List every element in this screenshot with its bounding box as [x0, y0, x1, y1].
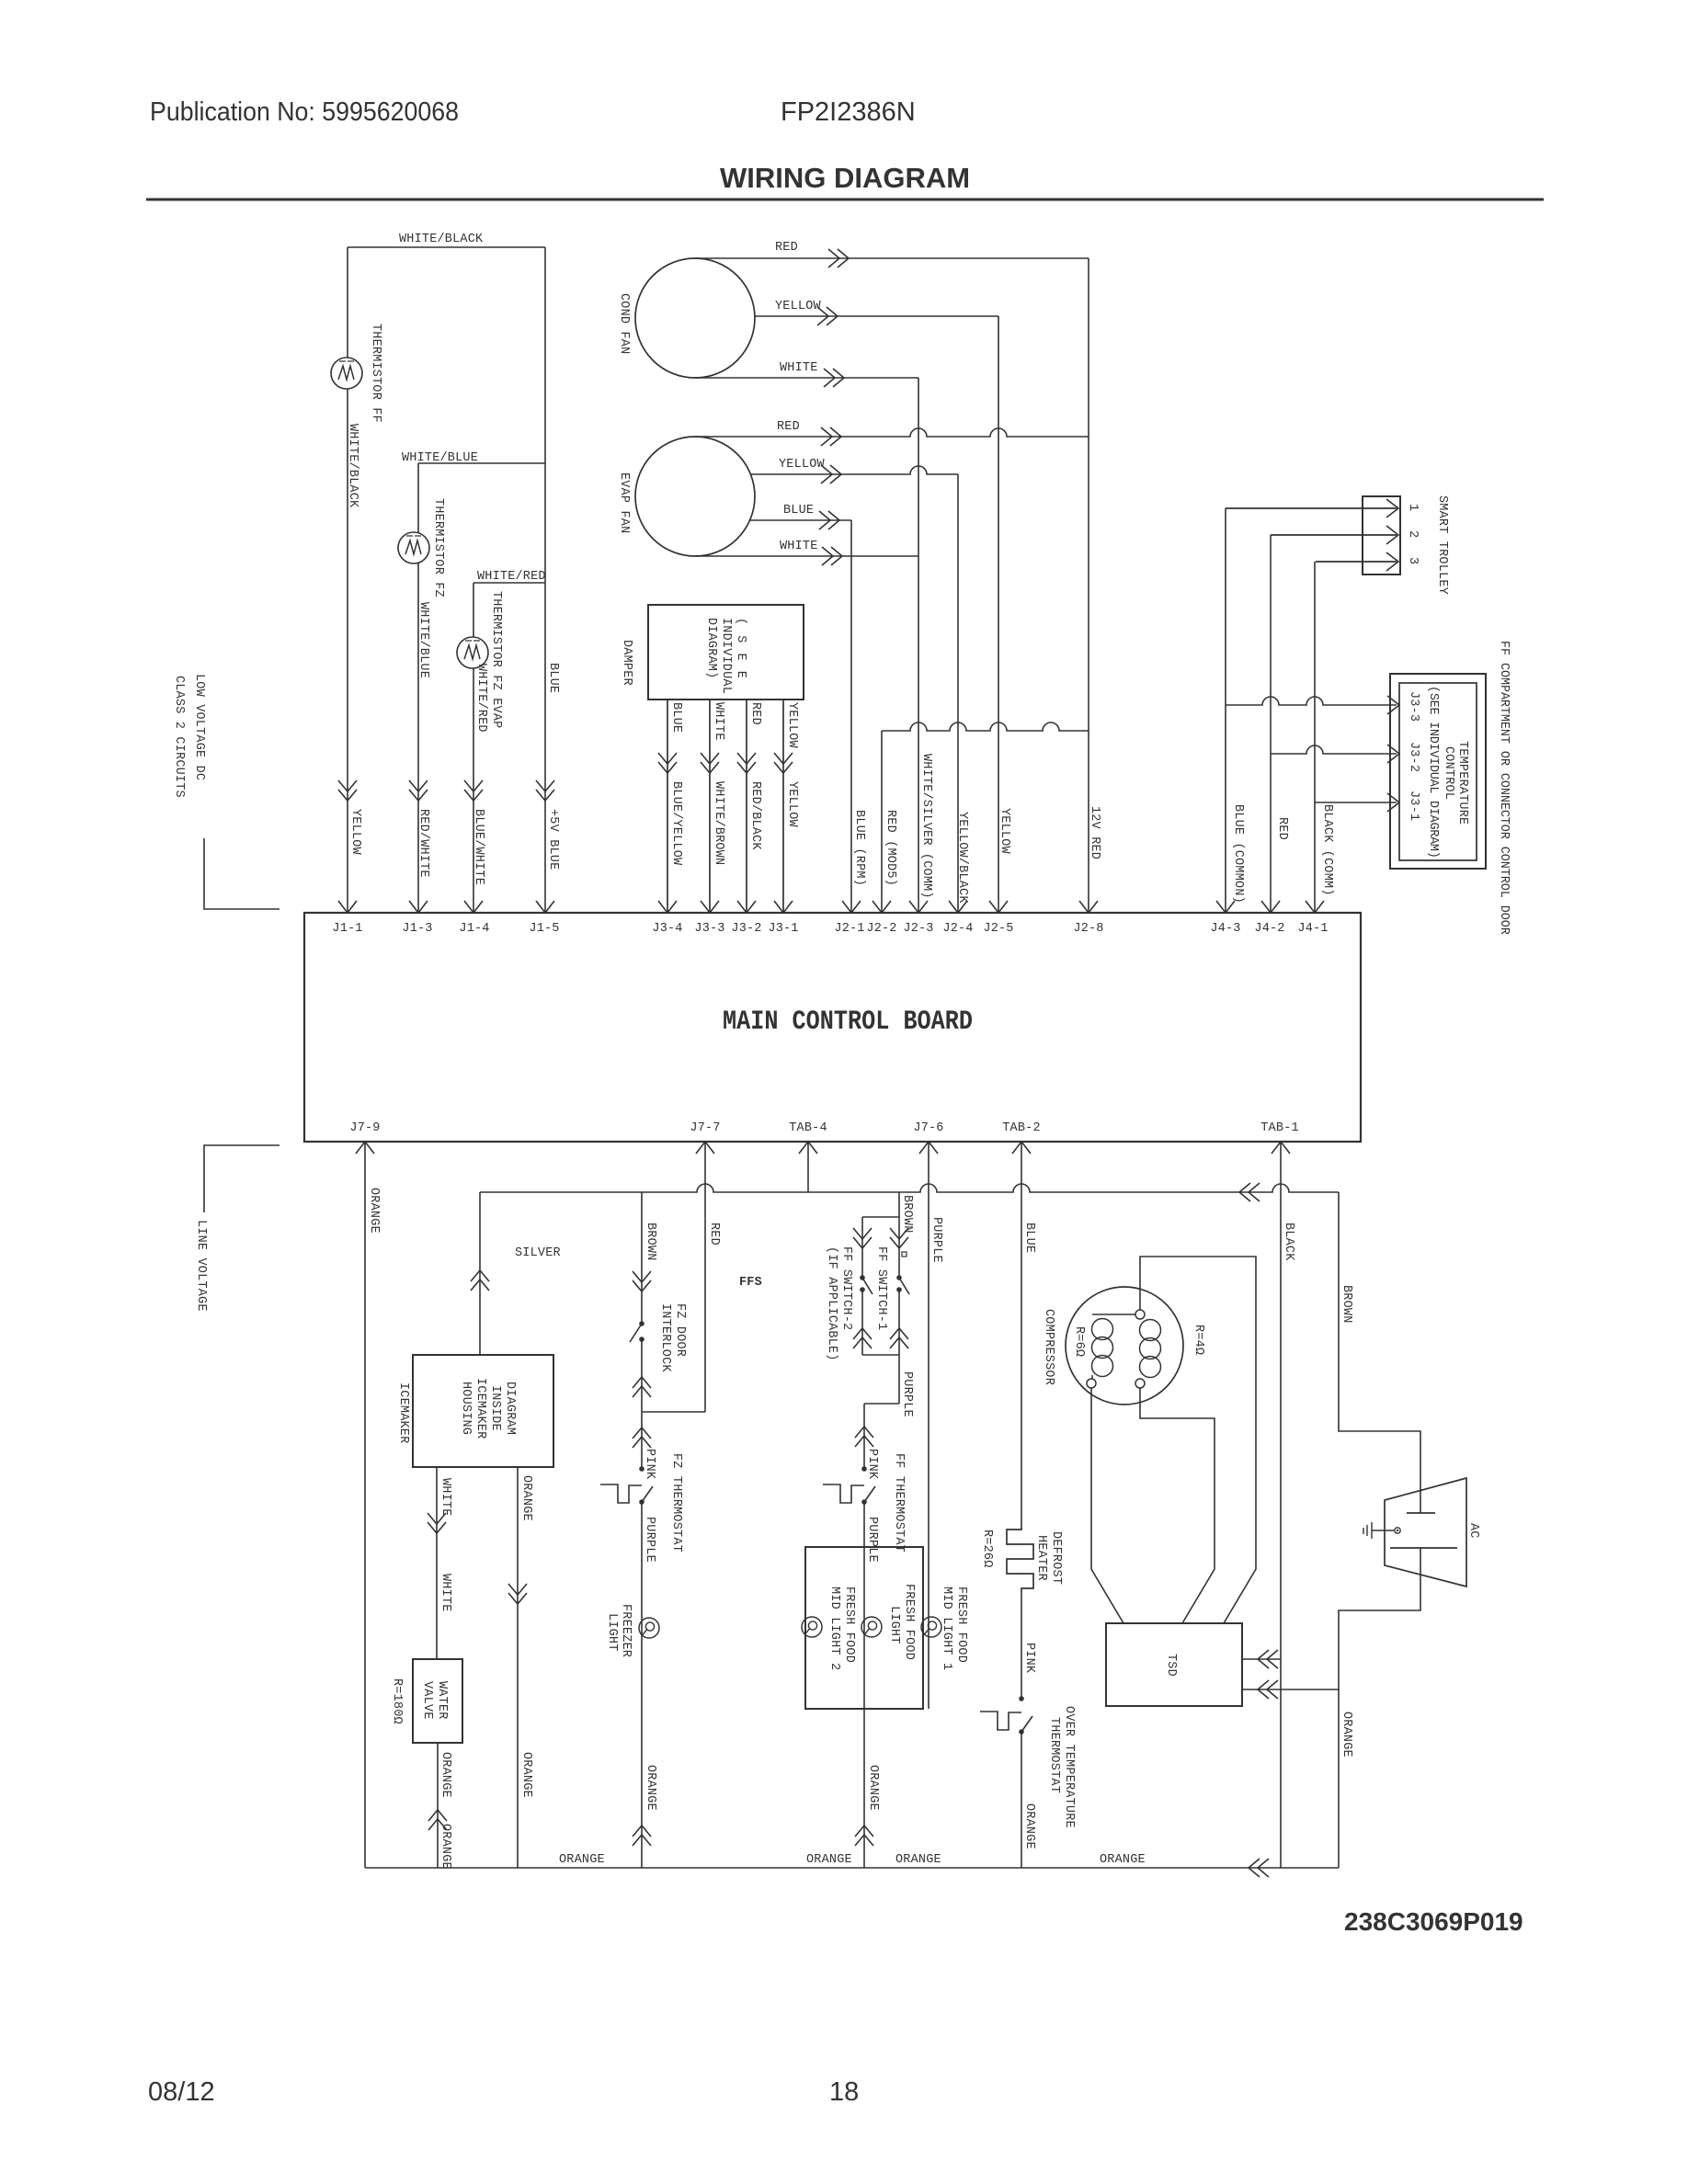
svg-text:Publication No: 5995620068: Publication No: 5995620068 — [150, 97, 459, 127]
wire RED MOD5 vertical to J2-2 — [881, 731, 883, 913]
connector chevron icemaker ORANGE — [508, 1584, 527, 1604]
arrow into J3 pin — [701, 901, 719, 913]
wire TAB-4 drop — [807, 1142, 809, 1192]
svg-text:PINK: PINK — [1022, 1643, 1036, 1674]
arrow into TAB-4 — [799, 1142, 817, 1154]
arrow into J1-5 — [536, 901, 554, 913]
connector chevron cond RED — [828, 249, 849, 267]
connector chevron damper RED — [737, 753, 756, 773]
connector chevron evap YELLOW — [821, 465, 841, 483]
svg-text:J7-7: J7-7 — [690, 1121, 720, 1135]
svg-text:RED (MOD5): RED (MOD5) — [884, 810, 897, 886]
svg-text:BLUE: BLUE — [546, 663, 560, 693]
svg-text:WHITE/BLACK: WHITE/BLACK — [346, 424, 359, 508]
ground pin — [1395, 1528, 1400, 1533]
svg-text:MID LIGHT 2: MID LIGHT 2 — [827, 1587, 841, 1670]
svg-text:TAB-4: TAB-4 — [789, 1121, 827, 1135]
arrow into J3 pin — [737, 901, 756, 913]
svg-text:PURPLE: PURPLE — [900, 1371, 914, 1417]
svg-text:WHITE: WHITE — [780, 540, 818, 553]
svg-text:YELLOW: YELLOW — [779, 458, 826, 472]
svg-text:COND FAN: COND FAN — [617, 293, 631, 354]
wire cond fan WHITE — [695, 377, 918, 379]
svg-text:1: 1 — [1406, 504, 1420, 511]
temperature control outer box — [1390, 674, 1486, 869]
leader low voltage — [204, 838, 279, 909]
arrow into J2-3 — [909, 901, 928, 913]
svg-text:FZ DOOR: FZ DOOR — [673, 1303, 687, 1357]
connector chevron J1-1 wire — [338, 780, 357, 801]
connector chevron cond YELLOW — [817, 307, 838, 325]
svg-text:THERMOSTAT: THERMOSTAT — [1047, 1717, 1061, 1793]
thermostat OVER TEMPERATURE THERMOSTAT — [1019, 1696, 1024, 1701]
connector chevron bottom rail — [1249, 1859, 1269, 1877]
svg-text:+5V BLUE: +5V BLUE — [546, 809, 560, 870]
AC power plug — [1385, 1478, 1466, 1587]
svg-text:J2-4: J2-4 — [942, 922, 973, 936]
arrow into temp control J3-2 — [1387, 745, 1399, 763]
wire BLUE COMMON vertical — [1225, 508, 1226, 913]
svg-text:LIGHT: LIGHT — [887, 1606, 901, 1644]
arrow into J2-2 — [873, 901, 891, 913]
wire J1-4 vertical — [473, 583, 474, 913]
wire compressor run to TSD — [1140, 1257, 1256, 1623]
connector chevron damper WHITE — [701, 753, 719, 773]
evap fan motor — [635, 437, 755, 556]
svg-text:INTERLOCK: INTERLOCK — [658, 1303, 672, 1372]
connector chevron FF pink — [855, 1427, 873, 1447]
arrow into J4-1 — [1306, 901, 1324, 913]
svg-text:J3-2: J3-2 — [1407, 742, 1420, 772]
wire J7-7 RED vertical — [704, 1142, 706, 1412]
svg-text:WHITE/BLUE: WHITE/BLUE — [416, 602, 430, 678]
damper box — [648, 605, 804, 700]
svg-text:MID LIGHT 1: MID LIGHT 1 — [940, 1587, 953, 1670]
svg-text:SILVER: SILVER — [515, 1246, 561, 1260]
svg-text:ORANGE: ORANGE — [439, 1752, 452, 1798]
svg-text:BLUE: BLUE — [669, 702, 683, 733]
wire WHITE/RED run — [473, 582, 545, 584]
thermistor FZ — [398, 532, 429, 563]
wire WHITE to water valve — [436, 1467, 438, 1659]
svg-text:WHITE/BLUE: WHITE/BLUE — [402, 451, 478, 465]
svg-text:J7-6: J7-6 — [913, 1121, 943, 1135]
fresh food light box — [805, 1547, 923, 1709]
svg-text:YELLOW: YELLOW — [775, 300, 822, 313]
svg-text:12V RED: 12V RED — [1088, 806, 1101, 859]
svg-text:BLACK: BLACK — [1282, 1223, 1295, 1261]
arrow into J4-3 — [1216, 901, 1235, 913]
svg-text:COMPRESSOR: COMPRESSOR — [1042, 1309, 1055, 1385]
connector chevron water valve ORANGE — [428, 1810, 447, 1830]
wire damper BLUE — [667, 700, 668, 913]
svg-text:ORANGE: ORANGE — [559, 1853, 605, 1867]
connector chevron TSD bottom — [1258, 1680, 1278, 1699]
wire 12V RED vertical — [1088, 258, 1089, 913]
title rule — [146, 199, 1544, 201]
wire interlock to thermostat — [641, 1339, 643, 1469]
svg-text:FRESH FOOD: FRESH FOOD — [842, 1587, 856, 1663]
svg-text:WHITE/BROWN: WHITE/BROWN — [712, 781, 725, 865]
arrow into J2-1 — [842, 901, 861, 913]
wire evap fan YELLOW — [750, 466, 958, 474]
arrow into J1-3 — [409, 901, 428, 913]
wire below FF SWITCH-2 — [861, 1290, 863, 1355]
svg-text:WATER: WATER — [435, 1681, 449, 1720]
wire FZ DOOR INTERLOCK brown drop — [641, 1192, 643, 1324]
wire FZ purple/orange to rail — [641, 1502, 643, 1868]
connector chevron below FF SWITCH-1 — [890, 1328, 908, 1348]
leader line voltage — [204, 1145, 279, 1212]
svg-text:TAB-2: TAB-2 — [1002, 1121, 1041, 1135]
svg-text:ICEMAKER: ICEMAKER — [473, 1378, 487, 1439]
svg-text:J4-3: J4-3 — [1210, 922, 1240, 936]
svg-text:VALVE: VALVE — [420, 1681, 434, 1720]
arrow into J1-1 — [338, 901, 357, 913]
svg-text:J3-4: J3-4 — [652, 922, 682, 936]
wire switch join — [862, 1354, 899, 1356]
wire water valve ORANGE — [437, 1743, 439, 1868]
arrow into J2-8 — [1079, 901, 1098, 913]
arrow into temp control J3-1 — [1387, 793, 1399, 812]
connector chevron J1-4 wire — [464, 780, 483, 801]
connector chevron damper BLUE — [658, 753, 677, 773]
arrow into J3 pin — [658, 901, 677, 913]
wire RED MOD5 horizontal run — [882, 722, 1089, 731]
svg-text:ORANGE: ORANGE — [367, 1188, 381, 1234]
svg-text:BLUE (COMMON): BLUE (COMMON) — [1231, 804, 1245, 904]
wire YELLOW vertical to J2-5 — [998, 316, 999, 913]
wire damper YELLOW — [782, 700, 784, 913]
svg-text:BROWN: BROWN — [644, 1223, 657, 1261]
svg-text:J7-9: J7-9 — [349, 1121, 380, 1135]
ground symbol — [1363, 1522, 1372, 1539]
connector chevron WHITE — [428, 1513, 446, 1533]
wire line-voltage feed horizontal run — [480, 1184, 1339, 1192]
svg-text:J2-2: J2-2 — [866, 922, 896, 936]
svg-text:RED: RED — [777, 420, 800, 434]
svg-text:YELLOW: YELLOW — [785, 702, 799, 749]
wire FF SWITCH-1 brown drop — [898, 1192, 900, 1278]
svg-text:FF SWITCH-2: FF SWITCH-2 — [839, 1246, 853, 1330]
arrow into J2-4 — [949, 901, 967, 913]
connector chevron FF SWITCH-2 — [853, 1228, 872, 1248]
svg-text:DIAGRAM: DIAGRAM — [503, 1382, 517, 1435]
svg-text:YELLOW/BLACK: YELLOW/BLACK — [955, 812, 969, 904]
main control board — [304, 913, 1361, 1142]
connector chevron J1-3 wire — [409, 780, 428, 801]
svg-text:CONTROL: CONTROL — [1442, 746, 1455, 800]
svg-text:J2-5: J2-5 — [983, 922, 1013, 936]
connector chevron below FF SWITCH-2 — [853, 1328, 872, 1348]
connector chevron interlock — [633, 1271, 651, 1291]
arrow trolley pin 2 — [1386, 526, 1398, 544]
wire jog to FF SWITCH-2 — [862, 1216, 899, 1218]
svg-text:CLASS 2 CIRCUITS: CLASS 2 CIRCUITS — [172, 676, 186, 798]
svg-text:MAIN CONTROL BOARD: MAIN CONTROL BOARD — [723, 1007, 973, 1038]
svg-text:ORANGE: ORANGE — [806, 1853, 852, 1867]
wire TSD to ORANGE stub — [1242, 1689, 1339, 1690]
arrow into J2-5 — [989, 901, 1008, 913]
temperature control inner box — [1399, 683, 1477, 860]
svg-text:RED: RED — [707, 1223, 721, 1246]
switch FF SWITCH-1 — [896, 1275, 902, 1280]
svg-text:FREEZER: FREEZER — [619, 1604, 633, 1657]
svg-text:ORANGE: ORANGE — [866, 1765, 880, 1811]
svg-text:BLACK (COMM): BLACK (COMM) — [1320, 804, 1334, 896]
wire +5V BLUE vertical — [544, 247, 546, 913]
svg-text:THERMISTOR FF: THERMISTOR FF — [369, 324, 382, 423]
svg-text:FZ THERMOSTAT: FZ THERMOSTAT — [669, 1453, 683, 1553]
thermistor FF — [331, 358, 362, 389]
svg-text:BROWN: BROWN — [900, 1195, 914, 1234]
svg-text:2: 2 — [1406, 530, 1420, 538]
svg-text:RED: RED — [748, 702, 762, 725]
svg-text:J3-1: J3-1 — [768, 922, 798, 936]
svg-text:FP2I2386N: FP2I2386N — [781, 97, 916, 127]
connector chevron J1-5 wire — [536, 780, 554, 801]
connector chevron feed run — [1239, 1183, 1260, 1201]
svg-text:08/12: 08/12 — [148, 2077, 215, 2107]
wire to J3-3 of temp control — [1226, 697, 1397, 705]
svg-text:BLUE: BLUE — [783, 504, 814, 518]
svg-text:FFS: FFS — [739, 1276, 762, 1290]
svg-text:YELLOW: YELLOW — [785, 781, 799, 828]
svg-text:RED/BLACK: RED/BLACK — [748, 781, 762, 850]
svg-text:BROWN: BROWN — [1340, 1285, 1353, 1324]
svg-text:J1-1: J1-1 — [332, 922, 362, 936]
svg-text:WHITE/RED: WHITE/RED — [477, 570, 546, 584]
switch FF SWITCH-2 — [860, 1275, 865, 1280]
smart trolley connector — [1363, 496, 1400, 574]
wire ORANGE from AC plug to rail — [1339, 1548, 1420, 1868]
arrow into J3 pin — [774, 901, 793, 913]
wire TAB-1 BLACK vertical — [1280, 1142, 1282, 1868]
connector chevron evap BLUE — [819, 511, 839, 529]
svg-text:YELLOW: YELLOW — [348, 809, 362, 856]
wire J7-6 PURPLE vertical — [928, 1142, 930, 1709]
wire compressor common to TSD — [1140, 1388, 1215, 1623]
svg-text:AC: AC — [1466, 1523, 1480, 1539]
icemaker box — [413, 1355, 553, 1467]
connector chevron evap RED — [821, 427, 841, 446]
svg-text:ORANGE: ORANGE — [519, 1752, 533, 1798]
svg-text:BLUE (RPM): BLUE (RPM) — [852, 810, 866, 886]
svg-text:TSD: TSD — [1164, 1654, 1178, 1677]
wire to FF thermostat — [863, 1404, 865, 1469]
arrow into J1-4 — [464, 901, 483, 913]
wire icemaker ORANGE — [517, 1467, 519, 1868]
connector chevron below interlock — [633, 1377, 651, 1397]
wire RED vertical — [1270, 535, 1272, 913]
svg-text:FRESH FOOD: FRESH FOOD — [954, 1587, 968, 1663]
lamp FRESH FOOD MID LIGHT 2 — [802, 1617, 822, 1637]
lamp FREEZER LIGHT — [639, 1618, 659, 1638]
arrow into J7-9 — [356, 1142, 374, 1154]
svg-text:ORANGE: ORANGE — [439, 1824, 452, 1870]
compressor motor — [1066, 1287, 1183, 1405]
arrow into TAB-1 — [1272, 1142, 1290, 1154]
svg-text:LOW VOLTAGE DC: LOW VOLTAGE DC — [192, 674, 206, 780]
wire trolley pin 2 — [1271, 534, 1397, 536]
connector chevron cond WHITE — [824, 369, 844, 387]
svg-text:ORANGE: ORANGE — [1100, 1853, 1146, 1867]
svg-text:WHITE: WHITE — [439, 1574, 452, 1612]
svg-text:PINK: PINK — [643, 1449, 656, 1480]
wire BROWN to AC plug — [1339, 1192, 1420, 1513]
wire trolley pin 1 — [1226, 507, 1397, 509]
wire to J3-1 of temp control — [1315, 802, 1397, 803]
svg-text:J2-8: J2-8 — [1073, 922, 1103, 936]
svg-text:WHITE: WHITE — [712, 702, 725, 741]
svg-text:R=4Ω: R=4Ω — [1192, 1325, 1205, 1355]
wire evap fan BLUE — [750, 519, 851, 521]
wire to J3-2 of temp control — [1271, 745, 1397, 754]
svg-text:OVER TEMPERATURE: OVER TEMPERATURE — [1062, 1706, 1076, 1828]
svg-text:WIRING DIAGRAM: WIRING DIAGRAM — [720, 162, 970, 194]
arrow trolley pin 3 — [1386, 552, 1398, 571]
svg-text:R=26Ω: R=26Ω — [980, 1530, 994, 1568]
wire join interlock-red — [642, 1411, 705, 1413]
wire cond fan RED — [695, 257, 1089, 259]
svg-text:PURPLE: PURPLE — [643, 1517, 656, 1563]
wire FF SWITCH-2 drop — [861, 1217, 863, 1278]
wire trolley pin 3 — [1316, 561, 1397, 563]
thermistor FZ EVAP — [457, 637, 488, 668]
wire damper RED — [746, 700, 747, 913]
svg-text:HEATER: HEATER — [1034, 1535, 1048, 1581]
svg-text:R=6Ω: R=6Ω — [1072, 1326, 1086, 1357]
wire J1-1 vertical — [347, 247, 348, 913]
svg-text:PINK: PINK — [865, 1449, 879, 1480]
lamp FRESH FOOD LIGHT — [861, 1617, 882, 1637]
svg-text:DAMPER: DAMPER — [620, 640, 633, 686]
svg-text:J2-3: J2-3 — [903, 922, 933, 936]
wire ORANGE to rail — [1021, 1732, 1022, 1868]
wire TSD to BLACK stub — [1242, 1658, 1281, 1660]
svg-text:BLUE/WHITE: BLUE/WHITE — [472, 809, 485, 885]
svg-text:J1-3: J1-3 — [402, 922, 432, 936]
switch FZ DOOR INTERLOCK — [639, 1321, 644, 1326]
wire BLACK COMM vertical — [1314, 562, 1316, 913]
connector chevron FF orange — [855, 1826, 873, 1846]
connector chevron FF SWITCH-1 — [890, 1228, 908, 1248]
svg-text:WHITE: WHITE — [780, 361, 818, 375]
svg-text:(IF APPLICABLE): (IF APPLICABLE) — [825, 1246, 838, 1361]
bottom rail wire — [365, 1867, 1339, 1869]
svg-text:RED: RED — [775, 241, 798, 255]
svg-text:LINE VOLTAGE: LINE VOLTAGE — [194, 1220, 208, 1312]
svg-text:J2-1: J2-1 — [834, 922, 864, 936]
svg-text:ORANGE: ORANGE — [519, 1475, 533, 1521]
wire WHITE/BLACK top run — [348, 246, 545, 248]
wire FF purple/orange to rail — [863, 1502, 865, 1868]
svg-text:SMART TROLLEY: SMART TROLLEY — [1435, 495, 1449, 595]
arrow into J7-7 — [696, 1142, 714, 1154]
TSD box — [1106, 1623, 1242, 1706]
wire evap fan WHITE — [695, 555, 918, 557]
arrow into TAB-2 — [1012, 1142, 1031, 1154]
ground lead — [1372, 1530, 1394, 1531]
wire damper WHITE — [709, 700, 711, 913]
compressor start winding R=6ohm — [1087, 1379, 1096, 1388]
arrow trolley pin 1 — [1386, 499, 1398, 518]
svg-text:J1-4: J1-4 — [459, 922, 489, 936]
connector chevron TSD top — [1258, 1650, 1278, 1668]
svg-text:J4-2: J4-2 — [1254, 922, 1284, 936]
wire J7-9 ORANGE vertical — [364, 1142, 366, 1868]
svg-text:PURPLE: PURPLE — [930, 1217, 943, 1263]
svg-text:ORANGE: ORANGE — [1340, 1712, 1353, 1757]
wire TAB-2 BLUE vertical — [1021, 1142, 1022, 1527]
svg-text:PURPLE: PURPLE — [865, 1517, 879, 1563]
svg-text:TEMPERATURE: TEMPERATURE — [1455, 741, 1469, 825]
svg-text:THERMISTOR FZ: THERMISTOR FZ — [431, 498, 445, 597]
svg-text:HOUSING: HOUSING — [459, 1382, 473, 1435]
svg-text:RED/WHITE: RED/WHITE — [416, 809, 430, 878]
wire WHITE/BLUE run — [418, 462, 545, 464]
water valve box — [413, 1659, 462, 1743]
wire BLUE RPM vertical to J2-1 — [850, 520, 852, 913]
svg-text:WHITE/RED: WHITE/RED — [474, 664, 488, 733]
svg-text:TAB-1: TAB-1 — [1260, 1121, 1299, 1135]
svg-text:LIGHT: LIGHT — [605, 1613, 619, 1652]
svg-text:WHITE/SILVER (COMM): WHITE/SILVER (COMM) — [919, 754, 933, 899]
svg-text:J3-3: J3-3 — [1407, 691, 1420, 722]
svg-text:ICEMAKER: ICEMAKER — [396, 1382, 410, 1443]
wire YELLOW/BLACK vertical to J2-4 — [957, 474, 959, 913]
lamp FRESH FOOD MID LIGHT 1 — [921, 1617, 941, 1637]
svg-text:FRESH FOOD: FRESH FOOD — [902, 1584, 916, 1660]
wire jog to FF thermostat — [864, 1403, 899, 1405]
connector chevron evap WHITE — [822, 547, 842, 565]
arrow into J7-6 — [919, 1142, 938, 1154]
arrow into temp control J3-3 — [1387, 696, 1399, 714]
wire compressor start to TSD — [1091, 1388, 1123, 1623]
resistor DEFROST HEATER R=26ohm — [1007, 1527, 1033, 1592]
connector chevron pink — [633, 1428, 651, 1448]
cond fan motor — [635, 258, 755, 378]
svg-text:(SEE INDIVIDUAL DIAGRAM): (SEE INDIVIDUAL DIAGRAM) — [1426, 686, 1440, 859]
wire below FF SWITCH-1 — [898, 1290, 900, 1404]
svg-text:BLUE/YELLOW: BLUE/YELLOW — [669, 781, 683, 866]
wire PINK below heater — [1021, 1592, 1022, 1699]
svg-text:BLUE: BLUE — [1022, 1223, 1036, 1253]
wire J1-3 vertical — [417, 463, 419, 913]
wire evap fan RED — [695, 428, 1089, 437]
svg-text:ORANGE: ORANGE — [895, 1853, 941, 1867]
svg-text:J3-3: J3-3 — [694, 922, 724, 936]
connector chevron damper YELLOW — [774, 753, 793, 773]
connector chevron SILVER — [471, 1270, 489, 1291]
svg-text:R=180Ω: R=180Ω — [390, 1678, 404, 1724]
svg-text:J3-2: J3-2 — [731, 922, 761, 936]
svg-text:FF THERMOSTAT: FF THERMOSTAT — [892, 1453, 906, 1553]
wire SILVER vertical — [479, 1192, 481, 1355]
svg-text:J4-1: J4-1 — [1297, 922, 1328, 936]
wire WHITE/SILVER vertical to J2-3 — [918, 378, 919, 913]
arrow into J4-2 — [1261, 901, 1280, 913]
connector chevron FZ orange — [633, 1826, 651, 1846]
svg-text:YELLOW: YELLOW — [998, 808, 1011, 855]
svg-text:THERMISTOR FZ EVAP: THERMISTOR FZ EVAP — [489, 591, 503, 728]
svg-text:FF COMPARTMENT OR CONNECTOR CO: FF COMPARTMENT OR CONNECTOR CONTROL DOOR — [1497, 641, 1511, 935]
svg-text:EVAP FAN: EVAP FAN — [617, 472, 631, 533]
thermostat FZ THERMOSTAT — [639, 1466, 644, 1472]
svg-text:3: 3 — [1406, 557, 1420, 564]
svg-text:238C3069P019: 238C3069P019 — [1344, 1907, 1523, 1936]
svg-text:J3-1: J3-1 — [1407, 791, 1420, 821]
